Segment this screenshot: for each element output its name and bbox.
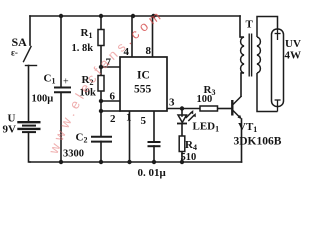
node bottom rail pin1 — [127, 160, 131, 164]
resistor R3 — [200, 106, 218, 111]
wire top rail — [30, 15, 240, 17]
node bottom rail C2 — [99, 160, 103, 164]
node pin2 junction — [99, 109, 103, 113]
wire R2 to C2 — [100, 91, 102, 137]
svg-text:6: 6 — [110, 91, 116, 103]
wire LED branch top — [181, 109, 183, 117]
resistor R1 — [98, 30, 104, 46]
wire pin2 stub — [101, 110, 120, 112]
transistor VT1 — [232, 96, 242, 119]
svg-text:UV: UV — [285, 38, 301, 50]
svg-text:555: 555 — [134, 84, 152, 96]
svg-text:9V: 9V — [3, 124, 17, 136]
node top rail R1 — [99, 14, 103, 18]
svg-text:ε-: ε- — [11, 48, 18, 58]
wire left rail lower — [28, 66, 30, 122]
wire C2 to bottom rail — [100, 142, 102, 163]
LED1 — [177, 110, 196, 124]
capacitor C1 — [54, 88, 71, 93]
wire R1 top lead — [100, 16, 102, 30]
wire bottom rail — [30, 161, 242, 163]
svg-text:T: T — [246, 19, 254, 31]
wire LED to R4 — [181, 124, 183, 137]
capacitor 0.01u — [148, 142, 161, 146]
wire collector lead — [240, 73, 242, 96]
svg-text:100: 100 — [197, 94, 213, 105]
svg-text:100μ: 100μ — [32, 94, 54, 105]
wire secondary bottom to lamp — [257, 73, 278, 112]
switch SA blade — [24, 47, 32, 62]
svg-text:IC: IC — [137, 70, 150, 82]
wire pin5 upper — [153, 111, 155, 142]
svg-text:2: 2 — [110, 113, 116, 125]
wire pin6 stub — [101, 100, 120, 102]
wire pin8 — [152, 16, 154, 57]
svg-text:VT1: VT1 — [238, 121, 257, 134]
svg-text:LED1: LED1 — [193, 121, 220, 134]
wire R3 to base — [218, 108, 232, 110]
node R1-R2 junction pin7 — [99, 65, 103, 69]
svg-text:510: 510 — [181, 152, 197, 163]
svg-text:R4: R4 — [185, 139, 197, 152]
svg-text:0. 01μ: 0. 01μ — [138, 167, 167, 179]
lamp top electrode — [275, 29, 281, 40]
node pin3 LED junction — [180, 106, 184, 110]
wire pin3 output — [167, 108, 200, 110]
node bottom rail cap — [152, 160, 156, 164]
resistor R2 — [98, 76, 104, 92]
wire R1-R2 lead — [100, 46, 102, 76]
svg-text:3DK106B: 3DK106B — [234, 136, 282, 148]
wire C1 branch upper — [60, 16, 62, 87]
wire transformer primary top lead — [239, 16, 241, 37]
svg-text:C2: C2 — [76, 132, 88, 145]
transformer T secondary winding — [257, 37, 260, 73]
op-amp IC 555 box — [120, 57, 167, 111]
node pin6 junction — [99, 99, 103, 103]
node dots — [59, 14, 184, 164]
svg-text:4W: 4W — [285, 50, 302, 62]
capacitor C2 — [91, 137, 112, 142]
node top rail C1 — [59, 14, 63, 18]
svg-text:R1: R1 — [81, 27, 93, 40]
node bottom rail C1 — [59, 160, 63, 164]
wire pin5 cap to rail — [153, 146, 155, 162]
svg-text:+: + — [63, 77, 69, 88]
transformer T primary winding — [240, 37, 244, 73]
wire pin4 — [131, 16, 133, 57]
switch SA bottom contact — [26, 65, 37, 67]
wire emitter to rail — [241, 119, 243, 162]
UV lamp tube — [272, 29, 284, 107]
svg-text:1: 1 — [126, 112, 132, 124]
resistor R4 — [179, 136, 185, 152]
wire R4 to rail — [181, 152, 183, 163]
svg-text:3300: 3300 — [63, 149, 84, 160]
svg-text:1. 8k: 1. 8k — [72, 43, 94, 54]
wire secondary top to lamp — [257, 17, 278, 38]
svg-text:8: 8 — [146, 45, 152, 57]
wire pin7 stub — [101, 66, 120, 68]
node top rail pin4 — [131, 14, 135, 18]
svg-text:5: 5 — [141, 115, 147, 127]
wire C1 branch lower — [60, 93, 62, 163]
svg-text:C1: C1 — [44, 73, 56, 86]
node top rail pin8 — [151, 14, 155, 18]
lamp bottom electrode — [275, 100, 281, 112]
wire battery to bottom rail — [29, 133, 31, 162]
wire pin1 — [129, 111, 131, 162]
battery U — [17, 122, 40, 132]
transformer T core — [248, 34, 250, 77]
node bottom rail R4 — [180, 160, 184, 164]
svg-text:3: 3 — [169, 97, 175, 109]
wire left rail upper (to switch) — [29, 16, 31, 45]
